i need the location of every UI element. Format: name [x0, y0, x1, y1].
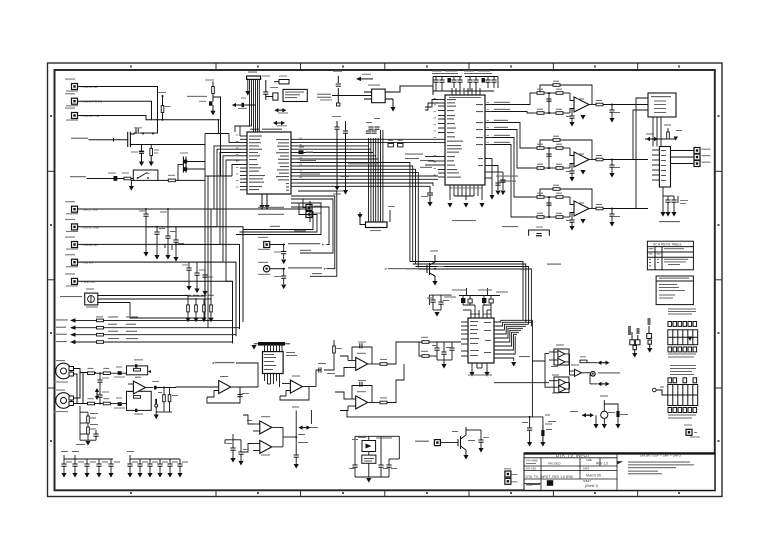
connector J11 out c: [694, 161, 711, 167]
U2 pin text rows left: [447, 99, 463, 178]
ferrite bead circuit FB2: [478, 288, 508, 305]
connector C7: [65, 254, 93, 267]
wire loop keypad bus to U1 bottom connectors: [236, 203, 321, 235]
connector J1 (audio L in): [65, 79, 98, 92]
capacitor V1 fb: [237, 390, 249, 397]
svg-text:Y BKLO SND: Y BKLO SND: [81, 208, 98, 212]
resistor RL1b: [95, 368, 118, 375]
connector stub CA2 left of title block: [505, 478, 518, 484]
wire J8 to output jacks: [671, 151, 695, 164]
wire U5 inputs from left: [335, 356, 348, 411]
vertical net TP column: [292, 407, 318, 469]
wire risers to PB video nets: [291, 191, 337, 276]
U4 internal text: [470, 321, 491, 356]
comparator pair CP1: [247, 416, 283, 434]
black bar above U6: [254, 342, 290, 346]
op-amp U5A: [348, 353, 380, 371]
connector J9 out a: [694, 148, 711, 154]
capacitor C15 column: [262, 76, 270, 101]
title block logo: [547, 480, 553, 486]
ground Q1: [210, 111, 215, 116]
resistor R7 row2: [122, 173, 131, 180]
capacitor chain CL3a: [182, 262, 192, 291]
connector J3: [65, 108, 100, 121]
ground U2 a: [447, 203, 452, 208]
U2 bottom pins: [450, 185, 482, 200]
U6 internal text: [264, 354, 276, 370]
wire S1 out: [158, 179, 205, 181]
U4 top pins: [463, 305, 491, 318]
notes box: [656, 276, 693, 305]
labels left of filter feeds: [452, 176, 518, 228]
U4 bottom pins with grounds: [472, 363, 487, 372]
capacitor Q2 drain: [134, 120, 158, 134]
resistor pair to ground: [156, 388, 178, 413]
wire filter outputs to header box: [612, 98, 648, 209]
capacitor U5A feedback: [358, 342, 366, 349]
connector PB2 round: [258, 262, 270, 275]
capacitor cluster left of U4: [427, 295, 452, 317]
capacitor bank above U2 left: [432, 71, 463, 96]
node PB_SAM row label: [71, 138, 88, 139]
wire JTAG to crystal: [332, 95, 372, 97]
test point bar TB1: [154, 399, 159, 419]
connector J6: [306, 212, 322, 218]
U2 top pins: [452, 88, 480, 95]
decoupling bank B: [127, 451, 188, 478]
wire bus group3 into U2: [298, 130, 438, 186]
frame zone ticks top/bottom: [48, 63, 723, 497]
title block outline: [524, 453, 715, 490]
capacitor C22 mid column b: [341, 121, 349, 190]
bus labels RED GRN BLU: [300, 160, 434, 175]
net label PB1: [288, 243, 325, 246]
op-amp W2 mid: [570, 354, 591, 376]
pin number labels U1 left: [236, 135, 238, 188]
keypad row 2: [56, 324, 240, 330]
resistor divider above connector: [645, 125, 682, 142]
jumper resistors JP2 JP3: [388, 140, 403, 147]
wire J1: [78, 87, 158, 120]
U2 right lower decoupling: [492, 159, 503, 196]
long rail bottom: [340, 411, 543, 446]
J8 internal text: [661, 150, 666, 181]
header box H1: [648, 93, 676, 117]
capacitor bank right of rail: [522, 417, 556, 447]
transistor Q4 below U2: [421, 186, 433, 202]
pin number labels U2 right: [487, 102, 489, 143]
pin number labels U2 left: [434, 98, 436, 175]
wire C8: [78, 281, 233, 343]
label OUT BRIGHT: [659, 221, 680, 222]
capacitor row2 coupling: [108, 173, 117, 181]
title block right paragraph: [628, 462, 694, 475]
title block grid lines: [524, 453, 617, 490]
U2 pin text rows right: [476, 104, 483, 166]
transistor Q1: [205, 80, 221, 111]
resistor V2 out: [333, 340, 342, 356]
transistor Q2: [128, 132, 134, 146]
transistor Q3 dual: [178, 153, 205, 181]
arrow XTAL label: [356, 74, 373, 81]
net label PB ALIGN: [270, 226, 306, 232]
capacitor C21 mid column a: [332, 116, 341, 186]
wire feeds U2 outputs to filter inputs: [492, 93, 533, 217]
wire C5: [78, 227, 244, 322]
net label PB2: [288, 267, 327, 270]
ground J4 pin1: [245, 79, 250, 95]
wire audio feeds from rail: [494, 354, 549, 388]
resistor RL2a: [88, 398, 95, 405]
IC U6 video filter body: [263, 352, 284, 374]
feedback loop rect W3: [554, 377, 569, 393]
MUTE fet Q6: [384, 251, 444, 286]
wire PB2: [270, 268, 285, 270]
svg-text:March 06: March 06: [586, 474, 601, 478]
polarized capacitor C16: [266, 87, 278, 100]
J4 label: [248, 72, 257, 73]
U1 reference label: [250, 129, 282, 130]
wire J3: [78, 116, 147, 120]
U2 right pin stubs: [485, 105, 492, 179]
IC U2 video decoder body: [445, 95, 485, 185]
wire PB1 with net label: [270, 244, 285, 246]
coupling cap audio row1: [114, 367, 125, 378]
filter block 1 (luma) op-amp U3A: [533, 81, 648, 127]
pushbutton label: [187, 96, 207, 102]
vertical stub右: [310, 410, 312, 424]
connector C6: [65, 237, 98, 250]
wire junction rail: [146, 97, 221, 176]
ground U6 bar: [251, 345, 256, 350]
labels lower-left of block: [545, 415, 552, 425]
keypad row 3: [56, 331, 236, 337]
ground U1 bottom a: [259, 205, 264, 210]
connector pair K1 left of HDR1: [628, 326, 640, 358]
capacitor CC1: [226, 440, 236, 463]
node PB row2 label: [70, 176, 86, 177]
wire RCA tie bars: [74, 369, 97, 404]
feedback loop U5A: [352, 347, 372, 364]
filter block 2 (chroma) op-amp U3B: [533, 136, 648, 182]
svg-text:PROSED: PROSED: [548, 462, 562, 466]
SCH REVS TABLE: [647, 241, 693, 270]
svg-text:Y IN2 AC SND: Y IN2 AC SND: [81, 225, 99, 229]
svg-text:(Sheet 1): (Sheet 1): [585, 484, 598, 488]
double arrow DA1: [587, 361, 610, 365]
resistor ladder R20-R23: [185, 295, 214, 322]
ground mid column b: [343, 190, 348, 195]
svg-text:SCH REVS TABLE: SCH REVS TABLE: [653, 242, 682, 246]
ground R8: [149, 162, 154, 167]
label JTAG: [317, 94, 331, 98]
svg-text:DATE: DATE: [583, 468, 590, 471]
voltage regulator block VR1: [349, 436, 399, 482]
border frame inner: [55, 70, 715, 490]
pin number labels U1 right: [300, 138, 302, 178]
capacitor CL2b between rows: [95, 388, 109, 404]
comparator pair CP2: [253, 440, 283, 455]
junction dots bus: [99, 104, 613, 439]
connector C5: [65, 219, 99, 232]
U4 right pin nest to bus: [494, 320, 532, 417]
wire row1 to FET: [89, 138, 128, 141]
op-amp W1B: [549, 358, 570, 367]
U1 right pin stubs: [291, 139, 298, 186]
capacitor CQ5: [466, 430, 489, 453]
svg-text:Y SND LIN: Y SND LIN: [81, 280, 95, 284]
connector C4: [65, 201, 98, 214]
feedback V1: [207, 387, 240, 403]
U2 top pin numbers: [449, 96, 481, 99]
capacitors below J8: [660, 187, 688, 217]
label SDA SCL: [405, 91, 468, 160]
ground J7: [357, 212, 365, 225]
ground Q5: [463, 455, 468, 460]
wire V2 out up: [316, 356, 334, 387]
label DELAYED net: [547, 264, 561, 265]
wire bus group2 to lower bus: [298, 163, 418, 268]
resistor W out: [580, 356, 587, 362]
svg-text:SIZE: SIZE: [586, 458, 592, 462]
IC U1 microcontroller body: [247, 132, 291, 194]
junction cap after UB1: [152, 381, 176, 389]
feedback loop rect lower: [127, 391, 152, 414]
wire keypad risers to U1: [188, 134, 310, 335]
capacitor U2 right a: [495, 180, 505, 185]
op-amp W1A: [549, 345, 570, 358]
resistor stack RS1: [76, 406, 99, 446]
junction test point TP1: [590, 372, 620, 377]
net label SB AUX: [519, 356, 530, 357]
U4 left pin stubs: [461, 322, 468, 356]
svg-text:SHOW / DSP + SAP + SAP3: SHOW / DSP + SAP + SAP3: [640, 454, 681, 458]
U1 bottom connector rows: [291, 199, 306, 215]
double arrow DA2: [590, 374, 610, 386]
capacitor chain CL3b: [194, 262, 205, 293]
wire C4: [78, 201, 311, 222]
debug bus series caps: [366, 118, 380, 133]
U6 bottom pins: [265, 374, 280, 388]
resistor R8: [150, 145, 159, 162]
svg-text:REV 1.5: REV 1.5: [596, 462, 608, 466]
U1 bottom pins with grounds: [262, 194, 267, 205]
ground U4 nest: [511, 362, 516, 367]
svg-text:P/N SIZE: P/N SIZE: [526, 468, 536, 471]
jumper resistor in bus: [299, 147, 314, 155]
wire RCA path to op-amp V1: [176, 386, 219, 389]
U2 left entry wires: [425, 100, 438, 166]
keypad row 1: [56, 316, 233, 322]
wire C6: [78, 244, 240, 329]
crystal oscillator Y1 block: [364, 85, 393, 103]
ground U2 right: [489, 191, 505, 200]
connector J2 (audio R in): [65, 93, 103, 106]
connector J7 debug SIL bar: [366, 222, 388, 231]
label TP: [388, 206, 395, 222]
capacitor PB1: [274, 245, 286, 260]
label net CMP: [415, 440, 458, 446]
svg-text:Y IN2 LIN: Y IN2 LIN: [81, 261, 93, 265]
ground U4 a: [469, 372, 474, 377]
U4 label: [470, 314, 491, 315]
ground Q4: [427, 202, 432, 207]
ground U2 b: [463, 203, 468, 208]
filter block 3 (CVBS) op-amp U3C: [533, 185, 648, 231]
J4 pin wires into U1 top: [235, 79, 259, 136]
feedback loop rect W1: [554, 349, 569, 365]
decoupling bank A: [61, 451, 120, 478]
debug header bus vertical: [369, 130, 383, 222]
title block heavy top rule: [524, 452, 715, 454]
feedback loop U5B: [352, 386, 372, 403]
capacitor CL2a between rows: [97, 373, 109, 388]
connector GND square: [684, 425, 700, 438]
op-amp V2: [280, 376, 316, 397]
capacitor CC2: [238, 440, 249, 466]
ferrite bead circuit FB1: [444, 288, 480, 305]
ground PB2: [281, 285, 286, 290]
ground S1: [129, 180, 134, 190]
J8 pin stubs left: [652, 150, 659, 180]
wire bus U1 to U2 group1: [298, 139, 438, 159]
bottom sub-circuit with op-amp W4: [570, 396, 628, 429]
wire Y2 to bus: [98, 296, 211, 319]
connector PB1 video in: [258, 237, 270, 250]
wire Y1 out to C19: [393, 86, 433, 95]
capacitor PB2: [274, 269, 286, 284]
U4 bottom labels: [468, 375, 492, 376]
U1 left pin stubs: [240, 136, 247, 190]
wire Q2 source long: [134, 144, 205, 146]
wire row2: [87, 178, 133, 180]
wire C7: [78, 262, 237, 336]
IC U4 audio DAC body: [468, 318, 494, 363]
capacitor cluster CL1: [139, 209, 184, 262]
note box RESISTOR PACK: [283, 89, 307, 101]
label ANT row1: [258, 207, 284, 215]
crystal box Y2: [60, 289, 98, 308]
connector stub CA1 left of title block: [504, 468, 518, 477]
wire CC tie: [225, 434, 241, 444]
U1 internal pin name text rows left: [249, 136, 265, 191]
op-amp V1 buffer: [207, 376, 258, 397]
wire J2: [78, 101, 152, 120]
label mid column: [333, 191, 343, 195]
capacitor chain CL3c: [202, 270, 213, 296]
svg-text:DTA_TV_INPUT_REV 1.5 DSB: DTA_TV_INPUT_REV 1.5 DSB: [526, 475, 574, 479]
bidirectional arrow VPP: [274, 108, 288, 114]
U1 top pin connector J4 SIL: [247, 76, 261, 79]
resistors U5 outputs: [380, 342, 419, 404]
op-amp UB1: [122, 373, 153, 403]
header block HDR0: [274, 76, 289, 84]
wire header box to connector: [653, 117, 661, 147]
left bus risers to U1 left pins: [78, 134, 241, 282]
labels right of V2: [318, 363, 335, 374]
resistor network left of U4: [419, 337, 461, 369]
feedback loop rect upper: [127, 359, 152, 375]
svg-text:P/N NAME: P/N NAME: [526, 459, 538, 462]
U2 bottom pin numbers: [449, 187, 483, 190]
net stub labels: [300, 250, 322, 274]
header grid HDR1: [668, 309, 698, 358]
capacitor U5B feedback: [358, 380, 366, 387]
net arrow PB VIDEO: [212, 362, 259, 387]
keypad row 4: [56, 338, 233, 344]
op-amp W3A: [549, 375, 570, 387]
header grid HDR2: [653, 365, 698, 419]
ground Y1: [390, 99, 395, 112]
resistor in mute loop: [536, 227, 543, 236]
connector C8: [65, 273, 95, 286]
resistor RL2b: [95, 398, 118, 405]
transistor Q5: [452, 427, 475, 455]
wire bus group2 corners to right: [410, 262, 532, 327]
op-amp U5B: [348, 391, 380, 409]
resistor R4 pullup: [158, 92, 171, 120]
svg-text:SHEET: SHEET: [583, 480, 592, 483]
resistor R9: [168, 175, 175, 182]
ground U2 c: [479, 203, 484, 208]
U6 side label: [286, 352, 297, 356]
op-amp W3B: [549, 383, 570, 394]
U2 left pin stubs: [438, 100, 445, 178]
connector J10 out b: [694, 154, 711, 160]
svg-text:DTA_TV_INPUT: DTA_TV_INPUT: [556, 453, 590, 458]
capacitor C18 column: [320, 71, 342, 106]
ground U1 bottom b: [264, 205, 269, 210]
capacitor C7h with arrow: [232, 98, 255, 110]
connector RCA1 CVBS jack: [54, 360, 74, 383]
wire comparator outputs join: [243, 415, 296, 452]
capacitor bank above U2 right: [464, 71, 498, 92]
bidirectional arrow VDD: [273, 121, 287, 127]
connector J5: [306, 205, 322, 211]
feedback V2: [280, 387, 309, 401]
resistor RL1a: [88, 368, 95, 375]
switch box S1: [133, 170, 158, 180]
border frame outer: [48, 63, 723, 497]
svg-text:Y IN2 AC LIN: Y IN2 AC LIN: [81, 243, 98, 247]
capacitor C9: [131, 145, 144, 162]
title block divider arrow: [618, 461, 624, 464]
connector RCA2 jack: [54, 390, 74, 413]
coupling cap audio row2: [114, 398, 125, 409]
U1 internal pin name text rows right: [276, 139, 289, 191]
U6 top pins: [265, 346, 283, 352]
connector J8 output: [659, 147, 670, 188]
ground mid column a: [334, 186, 339, 191]
frame zone numerals: [50, 66, 720, 495]
wire mute rect top right: [529, 230, 550, 236]
output wire labels: [494, 102, 510, 143]
connector pair K2: [647, 318, 653, 353]
ground U4 b: [484, 372, 489, 377]
ground PB1: [281, 260, 286, 265]
ground C9: [139, 162, 144, 167]
